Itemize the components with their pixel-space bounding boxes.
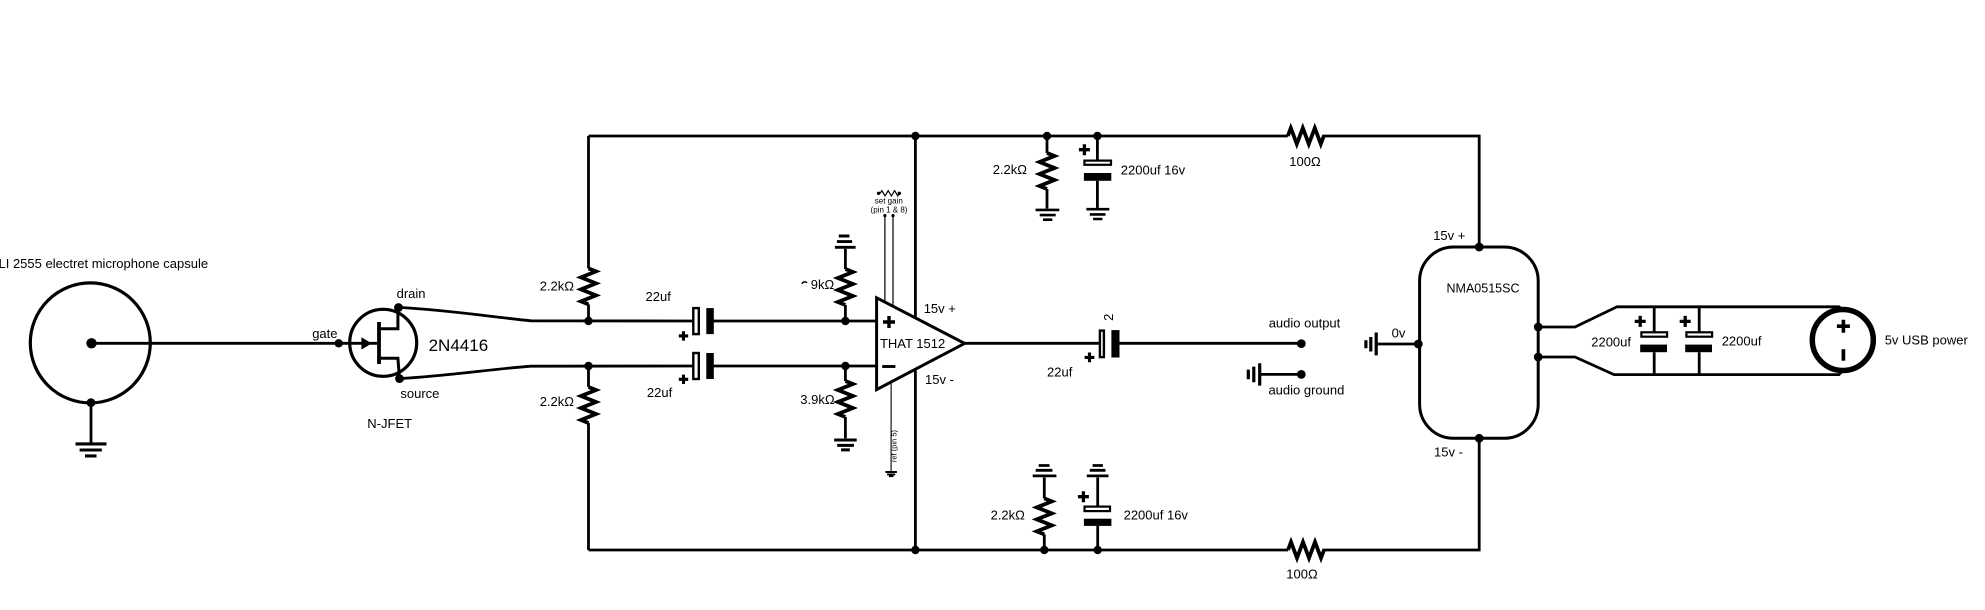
wire bottom rail left segment bbox=[589, 549, 1289, 552]
wire + input to op-amp bbox=[714, 320, 877, 323]
ground 3.9k lower bbox=[834, 440, 857, 450]
node - input left bias bbox=[584, 362, 592, 370]
node NMA output upper bbox=[1534, 323, 1543, 332]
capacitor C7 2200uf funnel B (minus plate) bbox=[1685, 345, 1712, 353]
capacitor C2 22uf lower (plus plate) bbox=[693, 353, 699, 379]
svg-text:ref (pin 5): ref (pin 5) bbox=[889, 429, 898, 462]
wire top rail right segment bbox=[1322, 136, 1479, 247]
resistor 2.2k bottom-right bbox=[1037, 498, 1052, 534]
wire mic to gate bbox=[96, 342, 377, 345]
svg-text:2200uf 16v: 2200uf 16v bbox=[1124, 508, 1189, 523]
svg-text:gate: gate bbox=[312, 326, 337, 341]
wire center vertical rail bbox=[914, 136, 917, 550]
svg-text:THAT 1512: THAT 1512 bbox=[880, 336, 945, 351]
wire drain to + input bbox=[399, 307, 693, 321]
wire 2.2k bottom-right stem upper bbox=[1043, 477, 1046, 498]
USB plus sign bbox=[1837, 320, 1850, 333]
svg-text:15v -: 15v - bbox=[1434, 445, 1463, 460]
node bottom rail center bbox=[911, 546, 919, 554]
transistor source channel bbox=[381, 358, 400, 378]
capacitor C6 2200uf funnel A (plus plate) bbox=[1641, 332, 1667, 336]
wire pin 1 lead bbox=[883, 214, 886, 307]
wire op-amp output to cap bbox=[965, 342, 1099, 345]
wire 2.2k bottom-right stem lower bbox=[1043, 534, 1046, 550]
capacitor C6 2200uf funnel A (minus plate) bbox=[1640, 345, 1667, 353]
ground 2.2k top-right bbox=[1036, 210, 1060, 220]
node top rail 2.2k bbox=[1043, 132, 1051, 140]
wire 2200uf top-right stem lower bbox=[1096, 181, 1099, 208]
svg-text:2.2kΩ: 2.2kΩ bbox=[540, 394, 575, 409]
svg-text:NMA0515SC: NMA0515SC bbox=[1447, 282, 1520, 296]
node bottom rail 2200uf bbox=[1094, 546, 1102, 554]
svg-text:9kΩ: 9kΩ bbox=[811, 277, 835, 292]
node + input left bias bbox=[584, 317, 592, 325]
wire 0v to NMA bbox=[1378, 343, 1419, 346]
capacitor C5 2200uf 16v bottom-right (minus plate) bbox=[1084, 519, 1112, 526]
node 0v bbox=[1414, 340, 1423, 349]
wire left bias vertical bottom from - input bbox=[587, 366, 590, 387]
node audio ground bbox=[1297, 370, 1306, 379]
svg-text:audio output: audio output bbox=[1269, 315, 1341, 330]
set gain resistor (pins 1 and 8) bbox=[877, 191, 901, 196]
resistor 3.9k upper bbox=[838, 269, 853, 305]
wire 2200uf bottom-right stem lower bbox=[1096, 526, 1099, 550]
RESISTORS bbox=[581, 128, 1324, 558]
USB power source circle bbox=[1812, 310, 1873, 371]
wire NMA to USB top bbox=[1538, 307, 1843, 327]
svg-text:100Ω: 100Ω bbox=[1286, 566, 1318, 581]
microphone center terminal dot bbox=[86, 338, 96, 348]
ground 2200uf top-right bbox=[1086, 209, 1109, 219]
svg-text:2.2kΩ: 2.2kΩ bbox=[540, 279, 575, 294]
svg-text:22uf: 22uf bbox=[646, 289, 672, 304]
transistor Q1 2N4416 body circle bbox=[350, 309, 417, 376]
capacitor C4 plus sign bbox=[1079, 144, 1090, 155]
wire left bias vertical top to + input bbox=[587, 304, 590, 321]
wire 2200uf top-right stem upper bbox=[1096, 136, 1099, 160]
node NMA 15v- bbox=[1475, 434, 1484, 443]
capacitor C4 2200uf 16v top-right (plus plate) bbox=[1084, 161, 1111, 165]
wire left bias vertical bottom bbox=[587, 423, 590, 550]
capacitor C5 plus sign bbox=[1078, 491, 1089, 502]
svg-text:source: source bbox=[400, 386, 439, 401]
svg-text:15v +: 15v + bbox=[924, 301, 956, 316]
svg-text:2N4416: 2N4416 bbox=[429, 336, 489, 355]
capacitor C7 plus sign bbox=[1680, 316, 1691, 327]
remnant of 3 in 3.9k upper bbox=[802, 282, 807, 284]
svg-text:(pin 1 & 8): (pin 1 & 8) bbox=[871, 206, 908, 215]
wire 2.2k top-right stem lower bbox=[1046, 189, 1049, 209]
ground audio (sideways) bbox=[1248, 363, 1259, 385]
capacitor C1 plus sign bbox=[679, 331, 688, 340]
svg-text:22uf: 22uf bbox=[1047, 365, 1073, 380]
wire 2200uf bottom-right stem upper bbox=[1096, 477, 1099, 505]
capacitor C4 2200uf 16v top-right (minus plate) bbox=[1084, 173, 1111, 181]
svg-text:5v USB power: 5v USB power bbox=[1885, 332, 1969, 347]
capacitor C3 22uf output (plus plate) bbox=[1100, 331, 1104, 358]
svg-text:2200uf: 2200uf bbox=[1722, 334, 1762, 349]
microphone bottom terminal dot bbox=[87, 398, 96, 407]
wire source to - input bbox=[400, 366, 693, 379]
wire ref pin 5 lead bbox=[890, 382, 892, 471]
wire 2.2k top-right stem upper bbox=[1046, 136, 1049, 153]
transistor gate arrow bbox=[361, 337, 371, 349]
node + input 3.9k bbox=[841, 317, 849, 325]
capacitor C1 22uf upper (plus plate) bbox=[693, 308, 699, 334]
node drain dot bbox=[394, 303, 403, 312]
svg-text:2.2kΩ: 2.2kΩ bbox=[993, 162, 1028, 177]
capacitor C7 2200uf funnel B (plus plate) bbox=[1686, 332, 1712, 336]
wire top rail left segment bbox=[589, 135, 1288, 138]
resistor 100 ohm bottom bbox=[1288, 542, 1324, 558]
wire 3.9k upper stem bbox=[844, 249, 847, 269]
node top rail 2200uf bbox=[1093, 132, 1101, 140]
wire - input to op-amp bbox=[714, 365, 877, 368]
wire 3.9k lower from - input bbox=[844, 366, 847, 381]
ground 2.2k bottom-right (inverted) bbox=[1033, 466, 1057, 476]
svg-text:2200uf 16v: 2200uf 16v bbox=[1121, 162, 1186, 177]
resistor 2.2k top-right bbox=[1040, 153, 1055, 189]
svg-text:15v -: 15v - bbox=[925, 372, 954, 387]
ground 3.9k upper (inverted) bbox=[835, 236, 856, 247]
svg-text:LI 2555 electret microphone ca: LI 2555 electret microphone capsule bbox=[0, 256, 208, 271]
resistor 2.2k top-left bbox=[581, 268, 596, 304]
svg-text:0v: 0v bbox=[1392, 326, 1406, 341]
microphone capsule circle bbox=[30, 283, 150, 403]
resistor 2.2k bottom-left bbox=[581, 387, 596, 423]
capacitor C1 22uf upper (minus plate) bbox=[706, 308, 714, 334]
wire mic to ground bbox=[90, 403, 93, 443]
ground 2200uf bottom-right (inverted) bbox=[1087, 466, 1109, 476]
ground ref pin 5 bbox=[885, 472, 897, 476]
wire 3.9k lower stem bbox=[844, 417, 847, 438]
resistor 100 ohm top bbox=[1288, 128, 1324, 144]
capacitor C5 2200uf 16v bottom-right (plus plate) bbox=[1085, 507, 1111, 512]
svg-text:22uf: 22uf bbox=[647, 385, 673, 400]
capacitor C6 plus sign bbox=[1635, 316, 1646, 327]
wire funnel cap B stems bbox=[1698, 307, 1701, 375]
svg-text:set gain: set gain bbox=[875, 197, 903, 206]
USB minus sign (vertical) bbox=[1842, 349, 1846, 361]
svg-text:3.9kΩ: 3.9kΩ bbox=[800, 392, 835, 407]
wire audio ground bbox=[1261, 373, 1301, 376]
op-amp U1 THAT 1512 bbox=[877, 298, 965, 390]
node bottom rail 2.2k bbox=[1040, 546, 1048, 554]
node audio output bbox=[1297, 339, 1306, 348]
node NMA output lower bbox=[1534, 353, 1543, 362]
capacitor C3 plus sign bbox=[1085, 353, 1095, 363]
svg-text:100Ω: 100Ω bbox=[1289, 154, 1321, 169]
svg-text:N-JFET: N-JFET bbox=[367, 416, 412, 431]
node source dot bbox=[395, 374, 404, 383]
capacitor C3 22uf output (minus plate) bbox=[1111, 330, 1119, 357]
wire left bias vertical top bbox=[587, 136, 590, 268]
capacitor C2 22uf lower (minus plate) bbox=[706, 353, 714, 379]
transistor gate bar bbox=[377, 322, 381, 364]
wire bottom rail right segment bbox=[1322, 438, 1479, 550]
wire 3.9k upper to + input bbox=[844, 305, 847, 321]
wire pin 8 lead bbox=[891, 214, 894, 312]
op-amp plus input sign bbox=[883, 316, 895, 328]
ground 0v (sideways) bbox=[1366, 333, 1376, 356]
svg-text:audio ground: audio ground bbox=[1268, 383, 1344, 398]
wire NMA to USB bottom bbox=[1538, 357, 1843, 375]
resistor 3.9k lower bbox=[838, 381, 853, 417]
capacitor C2 plus sign bbox=[679, 375, 688, 384]
ground microphone bbox=[76, 444, 107, 456]
node - input 3.9k bbox=[841, 362, 849, 370]
node gate dot bbox=[335, 339, 343, 347]
wire output cap to audio output bbox=[1119, 342, 1301, 345]
DC-DC converter NMA0515SC bbox=[1420, 247, 1539, 438]
svg-text:2.2kΩ: 2.2kΩ bbox=[991, 508, 1026, 523]
wire funnel cap A stems bbox=[1653, 307, 1656, 375]
svg-text:2: 2 bbox=[1101, 314, 1116, 321]
svg-text:drain: drain bbox=[397, 286, 426, 301]
svg-text:2200uf: 2200uf bbox=[1591, 335, 1631, 350]
node top rail center bbox=[911, 132, 919, 140]
transistor drain channel bbox=[381, 308, 398, 329]
node NMA 15v+ bbox=[1475, 243, 1484, 252]
svg-text:15v +: 15v + bbox=[1433, 228, 1465, 243]
op-amp minus input sign bbox=[882, 365, 895, 368]
